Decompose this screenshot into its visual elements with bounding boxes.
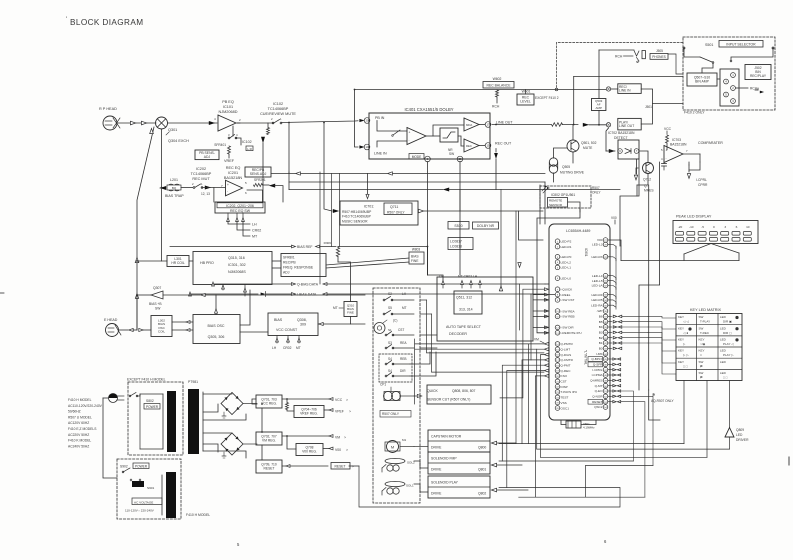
- capacitor: [663, 159, 665, 164]
- svg-text:○/◉: ○/◉: [700, 342, 706, 346]
- wire decoder wrap A: [427, 300, 545, 353]
- wire: [289, 181, 545, 183]
- svg-text:SFR201: SFR201: [254, 178, 266, 182]
- svg-text:B5: B5: [599, 320, 603, 324]
- wire bus x519: [519, 284, 521, 330]
- svg-text:AC220V 50HZ: AC220V 50HZ: [68, 433, 89, 437]
- svg-text:◁ ◁: ◁ ◁: [683, 320, 689, 324]
- wire: [606, 128, 609, 151]
- svg-text:RESET: RESET: [335, 465, 346, 469]
- svg-text:PT981: PT981: [188, 380, 198, 384]
- wire bus: [427, 247, 429, 276]
- svg-text:Q315, 316: Q315, 316: [228, 256, 245, 260]
- svg-text:AC120V 60HZ: AC120V 60HZ: [68, 421, 89, 425]
- svg-text:Q-PMTR: Q-PMTR: [561, 342, 574, 346]
- svg-text:FREQ. RESPONSE: FREQ. RESPONSE: [283, 266, 314, 270]
- svg-text:W601: W601: [522, 90, 531, 94]
- svg-text:Q-BPLY: Q-BPLY: [591, 357, 602, 361]
- svg-text:F410 K MODEL: F410 K MODEL: [68, 439, 91, 443]
- wire: [236, 138, 241, 145]
- svg-text:Q307: Q307: [153, 286, 161, 290]
- wire rail 497: [519, 496, 645, 498]
- svg-text:LED: LED: [720, 326, 727, 330]
- wire rail185 to micro: [539, 185, 541, 224]
- svg-text:RESET: RESET: [592, 400, 602, 404]
- wire: [103, 398, 117, 478]
- resistor: [552, 123, 563, 127]
- wire outputs left: [544, 342, 548, 345]
- wire: [683, 153, 700, 155]
- wire: [459, 190, 461, 212]
- svg-text:LED-LA: LED-LA: [592, 284, 604, 288]
- wire bus x501: [500, 190, 502, 288]
- svg-text:◁ ●: ◁ ●: [683, 331, 688, 335]
- svg-text:RCH: RCH: [615, 55, 623, 59]
- svg-text:T-PAVS IPU: T-PAVS IPU: [561, 390, 578, 394]
- svg-text:PB EQ: PB EQ: [222, 100, 234, 104]
- svg-text:OSC1: OSC1: [561, 406, 570, 410]
- ground stub: [223, 412, 225, 416]
- svg-text:': ': [66, 17, 67, 23]
- wire: [400, 446, 414, 448]
- svg-text:LINE OUT: LINE OUT: [619, 124, 634, 128]
- arrow: [135, 294, 138, 299]
- svg-text:I-MS: I-MS: [596, 352, 603, 356]
- svg-text:LED-L2: LED-L2: [561, 260, 572, 264]
- svg-text:VM REG.: VM REG.: [262, 439, 276, 443]
- svg-text:SW: SW: [699, 360, 704, 364]
- svg-text:MT: MT: [402, 306, 407, 310]
- arrow: [296, 172, 301, 175]
- svg-text:+: +: [409, 131, 411, 135]
- svg-text:+: +: [227, 183, 229, 187]
- crystal X801: [566, 421, 581, 428]
- svg-text:W602: W602: [493, 77, 502, 81]
- wire band rails: [415, 343, 544, 345]
- weighting filter: [440, 128, 458, 142]
- wire rail capstan: [499, 443, 684, 445]
- transformer F410H: [166, 472, 176, 518]
- svg-text:Q711: Q711: [390, 205, 398, 209]
- remote sensor IC802: [540, 186, 591, 208]
- junction dots: [288, 122, 290, 124]
- wire led pin bundle: [608, 244, 616, 248]
- svg-text:IC702 BA15218N: IC702 BA15218N: [608, 131, 635, 135]
- svg-text:10: 10: [746, 225, 750, 229]
- svg-text:CAPSTAIN MOTOR: CAPSTAIN MOTOR: [431, 435, 462, 439]
- pin 20 PB IN: [359, 119, 364, 122]
- wire reset rail: [349, 465, 359, 467]
- svg-text:R507 ONLY: R507 ONLY: [382, 412, 400, 416]
- svg-text:Q308,: Q308,: [297, 318, 307, 322]
- amp MDA: [464, 118, 479, 131]
- regulator VM: [256, 432, 282, 445]
- regulator VREF: [294, 406, 324, 418]
- svg-text:B3: B3: [599, 331, 603, 335]
- arrow: [141, 121, 146, 125]
- svg-text:ADJ: ADJ: [204, 155, 211, 159]
- diode: [625, 149, 631, 154]
- REC/PB SENS ADJ: [245, 167, 271, 177]
- svg-text:R507: R507: [592, 186, 600, 190]
- svg-text:IC202, Q201~206: IC202, Q201~206: [226, 204, 254, 208]
- wire rail: [161, 129, 163, 188]
- svg-text:LEVEL: LEVEL: [520, 100, 531, 104]
- svg-text:AMP: AMP: [595, 106, 602, 110]
- svg-text:DRIVE: DRIVE: [431, 492, 442, 496]
- F410H power dashed box: [117, 459, 181, 519]
- MODE pin 5: [409, 154, 424, 160]
- svg-text:IC401 CXA1551/5 DOLBY: IC401 CXA1551/5 DOLBY: [404, 107, 453, 112]
- svg-text:MUTING DRIVE: MUTING DRIVE: [560, 171, 585, 175]
- svg-text:SENSOR: SENSOR: [549, 203, 563, 207]
- svg-text:-10: -10: [689, 225, 694, 229]
- arrow: [518, 263, 521, 268]
- svg-text:LED: LED: [720, 349, 727, 353]
- svg-text:Q-MT: Q-MT: [595, 384, 603, 388]
- arrow: [366, 194, 369, 198]
- regulator VCC: [256, 395, 282, 408]
- svg-text:LED-L4: LED-L4: [592, 274, 603, 278]
- node L/R: [246, 146, 253, 151]
- svg-text:LED: LED: [720, 315, 727, 319]
- wire drive verticals: [528, 344, 530, 444]
- wire: [668, 221, 670, 244]
- wire led bus: [621, 260, 739, 262]
- svg-text:KEY LED MATRIX: KEY LED MATRIX: [690, 308, 722, 312]
- BIAS REF rail: [170, 246, 291, 248]
- svg-text:RCH: RCH: [492, 105, 500, 109]
- svg-text:15: 15: [486, 144, 490, 148]
- svg-text:LED-L0: LED-L0: [561, 276, 572, 280]
- microcontroller IC801 LC6554H: [549, 224, 610, 420]
- svg-text:LC0818: LC0818: [450, 245, 462, 249]
- svg-text:BIAS OSC: BIAS OSC: [208, 324, 225, 328]
- svg-text:VCC CONST: VCC CONST: [276, 328, 298, 332]
- svg-text:VCC REG.: VCC REG.: [261, 402, 277, 406]
- svg-text:LED: LED: [720, 360, 727, 364]
- svg-text:VREF REG.: VREF REG.: [300, 412, 318, 416]
- svg-text:M: M: [391, 445, 394, 450]
- svg-text:LED-R3: LED-R3: [591, 255, 602, 259]
- svg-text:KEY: KEY: [699, 349, 705, 353]
- svg-text:>: >: [352, 465, 354, 469]
- arrow: [135, 257, 139, 262]
- svg-text:IC801: IC801: [584, 248, 588, 257]
- svg-text:Q305, 306: Q305, 306: [208, 335, 225, 339]
- wire: [118, 329, 128, 331]
- bias vcc const block: [268, 313, 318, 336]
- svg-text:MODE: MODE: [412, 155, 422, 159]
- wire: [261, 408, 263, 432]
- svg-text:Q-CMTR: Q-CMTR: [561, 358, 574, 362]
- wire micro right stubs: [608, 358, 612, 360]
- pins on HB PRO: [222, 285, 224, 291]
- arrow: [609, 149, 615, 153]
- arrows into inputs: [545, 288, 549, 291]
- svg-text:B6: B6: [599, 315, 603, 319]
- quick sensor cut box: [427, 385, 491, 404]
- svg-text:IC102: IC102: [273, 102, 283, 106]
- IC801 left pins: [555, 239, 560, 244]
- wire: [561, 420, 566, 425]
- svg-text:I-CPMA: I-CPMA: [592, 373, 604, 377]
- svg-text:Q808, 806, 807: Q808, 806, 807: [452, 389, 475, 393]
- bridge rectifier 1: [221, 393, 243, 415]
- wire bus x531: [530, 294, 532, 360]
- wire matrix drops: [683, 381, 685, 444]
- svg-text:CST: CST: [561, 380, 567, 384]
- wire: [620, 159, 639, 246]
- inner dashed box: [379, 354, 412, 382]
- svg-text:REC EQ SW: REC EQ SW: [230, 209, 251, 213]
- wire: [608, 240, 621, 246]
- svg-text:AC240V 50HZ: AC240V 50HZ: [68, 444, 89, 448]
- svg-text:SFR801: SFR801: [283, 256, 295, 260]
- arrow: [160, 186, 166, 190]
- svg-text:□ □: □ □: [723, 376, 728, 380]
- svg-text:SW: SW: [155, 307, 161, 311]
- svg-text:ADJ: ADJ: [283, 271, 290, 275]
- svg-text:Q511, 312: Q511, 312: [456, 296, 472, 300]
- L302 bias osc coil: [151, 316, 172, 337]
- svg-text:0: 0: [713, 225, 715, 229]
- svg-text:DIR ▢: DIR ▢: [723, 331, 732, 335]
- svg-text:4.19MHz: 4.19MHz: [583, 426, 595, 430]
- svg-text:I-REMOTE IPU: I-REMOTE IPU: [561, 331, 582, 335]
- svg-text:I-REEL: I-REEL: [561, 293, 571, 297]
- svg-text:E HEAD: E HEAD: [104, 318, 118, 322]
- svg-text:SOLENOID PLAY: SOLENOID PLAY: [431, 481, 459, 485]
- svg-text:Q809: Q809: [736, 428, 744, 432]
- wire to music sensor: [324, 122, 332, 211]
- svg-text:B1: B1: [599, 341, 603, 345]
- svg-text:LH: LH: [272, 346, 277, 350]
- svg-text:-WP: -WP: [596, 309, 602, 313]
- transistor Q809 LED driver: [725, 428, 734, 438]
- wire: [168, 122, 218, 124]
- svg-text:MT: MT: [252, 235, 258, 239]
- wire: [427, 162, 429, 276]
- arrow: [205, 186, 211, 190]
- wire: [240, 290, 250, 325]
- arrow: [417, 394, 421, 397]
- svg-text:DECODER: DECODER: [449, 332, 467, 336]
- wire: [414, 446, 428, 448]
- bias osc block: [193, 315, 240, 344]
- IC701 music sensor: [340, 201, 418, 225]
- bridge rectifier 2: [221, 433, 243, 455]
- svg-text:CST: CST: [398, 328, 404, 332]
- transistor Q712: [643, 163, 654, 174]
- amp REC: [464, 139, 479, 152]
- svg-text:S902: S902: [120, 465, 128, 469]
- wire line out chain: [492, 124, 551, 126]
- pins LH CR02 MT: [227, 213, 229, 217]
- svg-text:>: >: [346, 448, 348, 452]
- svg-text:EXCEPT F410 H MODEL: EXCEPT F410 H MODEL: [127, 378, 166, 382]
- svg-text:I-SW CST: I-SW CST: [561, 298, 575, 302]
- svg-text:LED-RA: LED-RA: [591, 303, 603, 307]
- input selector dashed box: [683, 37, 775, 110]
- decoder Q511 box: [454, 291, 482, 314]
- arrow: [418, 209, 423, 213]
- wire: [637, 174, 648, 186]
- svg-text:RESET: RESET: [264, 467, 275, 471]
- wire comparator drop: [648, 185, 650, 390]
- svg-text:EXCEPT F410 2: EXCEPT F410 2: [535, 96, 559, 100]
- svg-text:S2: S2: [388, 292, 392, 296]
- svg-text:BIAS: BIAS: [411, 255, 419, 259]
- svg-text:REC/PLAY: REC/PLAY: [750, 74, 767, 78]
- svg-text:DIR ▣: DIR ▣: [723, 320, 732, 324]
- wire: [649, 390, 660, 420]
- svg-text:F410 2 ONLY: F410 2 ONLY: [684, 111, 705, 115]
- svg-text:KEY: KEY: [678, 315, 684, 319]
- svg-text:Q-LMT: Q-LMT: [561, 348, 571, 352]
- svg-text:J505: J505: [656, 49, 663, 53]
- wire: [636, 168, 638, 174]
- op-amp dolby: [407, 128, 426, 145]
- Q507-510 bin amp: [687, 73, 717, 86]
- svg-text:"L"INITIAL: "L"INITIAL: [584, 350, 588, 365]
- svg-text:□: □: [700, 353, 702, 357]
- wire: [163, 294, 200, 296]
- svg-text:BLOCK DIAGRAM: BLOCK DIAGRAM: [70, 18, 143, 27]
- svg-text:IC701:: IC701:: [364, 205, 375, 209]
- svg-text:Q802: Q802: [478, 492, 486, 496]
- IC801 right pins: [603, 238, 608, 243]
- svg-text:LED-R1: LED-R1: [561, 245, 572, 249]
- svg-text:REC BALANCE: REC BALANCE: [487, 84, 512, 88]
- arrow: [333, 209, 339, 213]
- SFR801 freq response: [281, 254, 326, 277]
- wire secondary taps: [203, 393, 232, 395]
- svg-text:FINE: FINE: [347, 311, 354, 315]
- svg-text:I-CPRL: I-CPRL: [592, 368, 602, 372]
- wire: [181, 187, 193, 189]
- svg-text:KEY: KEY: [678, 349, 684, 353]
- svg-text:R P HEAD: R P HEAD: [99, 107, 117, 111]
- svg-text:CR: CR: [439, 275, 444, 279]
- svg-text:I-SW REB: I-SW REB: [561, 315, 575, 319]
- svg-text:LED-L1: LED-L1: [561, 266, 572, 270]
- svg-text:SW: SW: [699, 326, 704, 330]
- wire to dolby: [282, 121, 359, 123]
- svg-text:V00: V00: [611, 216, 617, 220]
- svg-text:REA: REA: [400, 341, 407, 345]
- svg-text:MUTE: MUTE: [583, 146, 593, 150]
- wire: [117, 122, 156, 124]
- arrow: [443, 188, 449, 192]
- transformer PT981 primary: [167, 391, 176, 452]
- svg-text:□ □: □ □: [683, 364, 688, 368]
- svg-text:REC/PB: REC/PB: [283, 261, 296, 265]
- svg-text:Q301: Q301: [168, 128, 177, 132]
- switch 3-4 IC102: [228, 137, 230, 139]
- wire: [420, 299, 427, 301]
- svg-text:IC201: IC201: [228, 171, 238, 175]
- svg-text:IC301, 302: IC301, 302: [228, 263, 246, 267]
- svg-text:MT: MT: [296, 346, 301, 350]
- svg-text:TC14066BP: TC14066BP: [268, 107, 289, 111]
- svg-text:V00: V00: [335, 448, 341, 452]
- svg-text:MRES: MRES: [644, 189, 654, 193]
- svg-text:SOL1: SOL1: [406, 484, 414, 488]
- svg-text:S510: S510: [454, 224, 462, 228]
- wire: [288, 123, 290, 174]
- wire: [568, 202, 580, 208]
- svg-text:INPUT SELECTOR: INPUT SELECTOR: [726, 43, 756, 47]
- svg-text:S5: S5: [388, 306, 392, 310]
- arrow: [212, 282, 215, 286]
- svg-text:Q801: Q801: [478, 468, 486, 472]
- wire remote to micro: [537, 208, 580, 333]
- svg-text:B2: B2: [599, 336, 603, 340]
- arrow: [209, 121, 215, 125]
- svg-text:DOLBY NR: DOLBY NR: [477, 224, 495, 228]
- pin 19 LINE IN: [359, 145, 364, 148]
- AC voltage box: [132, 498, 162, 505]
- svg-text:PHONES: PHONES: [652, 55, 665, 59]
- wire rail182: [544, 182, 546, 224]
- wire rail 465: [586, 465, 653, 467]
- svg-text:R507 U MODEL: R507 U MODEL: [68, 415, 92, 419]
- svg-text:>: >: [346, 398, 348, 402]
- svg-text:Q800: Q800: [478, 446, 486, 450]
- svg-text:50/60HZ: 50/60HZ: [68, 410, 81, 414]
- Q503 AF amp: [592, 99, 606, 111]
- svg-text:I-SW REA: I-SW REA: [561, 309, 576, 313]
- wire rail76: [574, 76, 683, 78]
- svg-text:Q304 EXCH: Q304 EXCH: [168, 139, 189, 143]
- svg-text:MDA: MDA: [466, 123, 472, 127]
- wire: [252, 399, 257, 404]
- wire peak feed: [638, 330, 640, 390]
- mixer Q301: [156, 117, 168, 129]
- jack REC/LINE IN: [606, 87, 610, 91]
- svg-text:LED-L3: LED-L3: [592, 243, 603, 247]
- svg-text:I-BIAS DATA: I-BIAS DATA: [297, 293, 317, 297]
- svg-text:Q-REC: Q-REC: [561, 369, 572, 373]
- svg-text:LED-R5: LED-R5: [591, 298, 602, 302]
- svg-text:Q-PMT: Q-PMT: [561, 364, 571, 368]
- wire rail fmp: [499, 460, 633, 462]
- svg-text:IC703: IC703: [672, 138, 681, 142]
- I-BIAS DATA rail: [190, 293, 258, 295]
- switch: [393, 130, 400, 135]
- svg-text:DETECT: DETECT: [614, 136, 628, 140]
- svg-text:Q505: Q505: [562, 165, 570, 169]
- wire: [377, 121, 407, 132]
- svg-text:LED: LED: [720, 337, 727, 341]
- svg-text:BA15218N: BA15218N: [670, 143, 687, 147]
- switch S802 power: [129, 395, 131, 397]
- svg-text:VPEF: VPEF: [335, 410, 344, 414]
- svg-text:DIR: DIR: [400, 369, 406, 373]
- wire: [639, 151, 648, 162]
- arrow I-CPRL: [688, 165, 690, 172]
- svg-text:SOLENOID FMP: SOLENOID FMP: [431, 457, 457, 461]
- svg-text:CUE/REVIEW MUTE: CUE/REVIEW MUTE: [260, 112, 296, 116]
- wire: [318, 323, 365, 325]
- svg-text:PLAY ◁: PLAY ◁: [723, 342, 734, 346]
- svg-text:F410:TC14069UBP: F410:TC14069UBP: [342, 215, 372, 219]
- svg-text:PEAK LED DISPLAY: PEAK LED DISPLAY: [676, 215, 712, 219]
- svg-text:LED: LED: [720, 371, 727, 375]
- wire: [668, 54, 683, 74]
- svg-text:LED: LED: [736, 433, 743, 437]
